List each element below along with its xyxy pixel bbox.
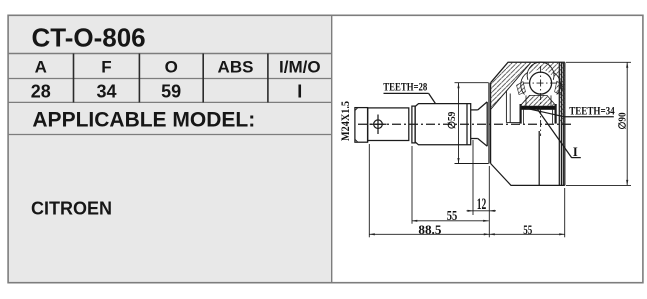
svg-text:∅59: ∅59 <box>447 112 458 129</box>
svg-text:CT-O-806: CT-O-806 <box>32 23 146 53</box>
column line A|F <box>73 54 75 103</box>
ball horizontal centerline <box>523 82 558 84</box>
table background panel <box>8 15 332 282</box>
svg-text:I/M/O: I/M/O <box>279 58 321 77</box>
main cylinder <box>368 108 409 141</box>
mouth inner vertical 2 <box>509 94 511 123</box>
svg-text:I: I <box>297 82 302 102</box>
thread end line <box>367 108 369 143</box>
dia59 ext top <box>455 82 489 84</box>
cage arc left <box>521 73 528 95</box>
cage wedge right <box>555 81 564 95</box>
column line F|O <box>138 54 140 103</box>
race shoulder left <box>525 95 527 106</box>
inner race bore right thick <box>554 104 556 124</box>
dia59 ext bottom <box>455 163 489 165</box>
inner race spline black bar <box>522 106 557 110</box>
dia90 ext bottom <box>566 184 631 186</box>
table/drawing divider <box>331 15 333 282</box>
svg-text:59: 59 <box>161 82 181 102</box>
svg-text:28: 28 <box>31 82 51 102</box>
bell outer profile top <box>491 62 565 82</box>
dim 55b line <box>489 233 564 235</box>
bell bottom profile <box>491 164 565 186</box>
drawing area panel <box>332 15 643 282</box>
svg-text:CITROEN: CITROEN <box>31 199 112 219</box>
dim 88.5 line <box>369 233 489 235</box>
bell right wall line 1 <box>558 62 560 185</box>
svg-text:A: A <box>35 58 47 77</box>
table row line under header <box>8 78 332 80</box>
svg-text:∅90: ∅90 <box>618 113 629 130</box>
column line ABS|IMO <box>267 54 269 103</box>
dim 55a ext line left <box>411 146 413 224</box>
top wall hatch <box>529 62 560 76</box>
dim 12 ext line left <box>472 140 474 215</box>
table row line under applicable model <box>8 134 332 136</box>
collar ring <box>412 106 415 143</box>
bore wall right thin <box>552 110 554 124</box>
ball vertical centerline <box>540 66 542 136</box>
dia59 dim line <box>458 83 460 164</box>
bell right wall line 3 <box>562 62 564 185</box>
teeth28 leader <box>429 93 436 103</box>
dia90 dim line <box>626 62 628 185</box>
teeth34 leader <box>526 108 565 117</box>
mouth cone boundary line <box>491 62 531 109</box>
shared ext line at rim <box>488 166 490 237</box>
cage arc right <box>554 73 561 95</box>
spline end line <box>466 104 468 145</box>
bell bottom groove at ball plane <box>538 131 540 185</box>
boot flare top <box>478 102 487 110</box>
svg-text:I: I <box>573 145 578 159</box>
ball track arc <box>527 62 554 80</box>
plain shaft top <box>471 109 478 111</box>
column line O|ABS <box>202 54 204 103</box>
center hole horizontal line <box>370 123 387 125</box>
mouth inner vertical 1 <box>505 91 507 123</box>
center hole vertical line <box>377 115 379 135</box>
bell mouth rim outer <box>488 83 490 164</box>
svg-text:55: 55 <box>523 223 532 237</box>
dia90 ext top <box>566 61 631 63</box>
svg-text:TEETH=28: TEETH=28 <box>383 80 427 94</box>
svg-text:55: 55 <box>447 208 458 223</box>
ball <box>530 72 552 94</box>
mouth wall hatch <box>491 62 531 109</box>
bore wall left thin <box>523 110 525 124</box>
dim 55b ext line right <box>564 188 566 237</box>
center hole circle <box>374 120 383 129</box>
I label underline <box>571 157 580 159</box>
svg-text:APPLICABLE MODEL:: APPLICABLE MODEL: <box>32 109 255 132</box>
teeth34 underline <box>565 116 614 118</box>
boot flare bottom <box>478 139 487 147</box>
svg-text:34: 34 <box>96 82 116 102</box>
table row line under values <box>8 101 332 103</box>
bell mouth rim inner <box>490 83 492 164</box>
dim 88.5 ext line left <box>368 144 370 237</box>
thread stub chamfer marks <box>355 108 358 143</box>
svg-text:88.5: 88.5 <box>418 222 442 237</box>
cavity floor line <box>506 122 520 124</box>
table row line under title <box>8 53 332 55</box>
main centerline <box>358 123 572 125</box>
svg-text:12: 12 <box>477 196 487 213</box>
svg-text:O: O <box>165 58 178 77</box>
svg-text:F: F <box>101 58 111 77</box>
spline section outline <box>415 104 471 145</box>
teeth28 underline <box>384 92 429 94</box>
svg-text:M24X1.5: M24X1.5 <box>338 101 352 141</box>
inner race bore left thick <box>519 104 521 124</box>
race shoulder right <box>550 95 552 106</box>
I label leader <box>537 109 572 158</box>
plain shaft bottom <box>471 138 478 140</box>
svg-text:ABS: ABS <box>218 58 254 77</box>
cage wedge left <box>517 82 526 95</box>
bell right wall line 2 <box>560 62 562 185</box>
dim 55a line <box>412 220 489 222</box>
right wall hatch <box>559 62 565 124</box>
bell right face <box>564 62 566 185</box>
thread stub <box>355 108 368 143</box>
boot flange face <box>486 102 488 146</box>
dim 12 line <box>467 210 497 212</box>
svg-text:TEETH=34: TEETH=34 <box>569 103 615 117</box>
inner race hatched <box>520 95 556 106</box>
